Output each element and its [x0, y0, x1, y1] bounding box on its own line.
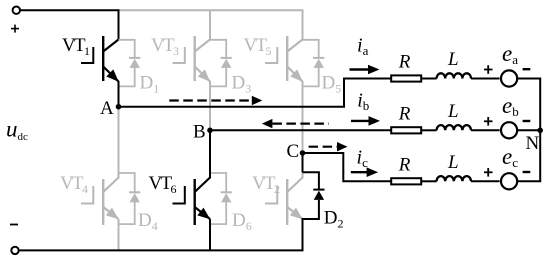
- svg-text:L: L: [447, 152, 459, 173]
- minus sign udc: [10, 224, 18, 226]
- diode D3: [210, 40, 232, 87]
- wire L to source phase b: [471, 129, 500, 131]
- transistor VT1: [81, 36, 119, 82]
- wire leg1 node A to VT4 collector: [118, 107, 120, 179]
- wire node B to VT6 collector: [209, 130, 211, 178]
- top rail wire: [20, 10, 119, 40]
- source e_c circle: [501, 173, 517, 189]
- wire node C down: [302, 153, 304, 172]
- svg-text:A: A: [100, 98, 114, 119]
- resistor R phase c: [391, 178, 421, 184]
- source e_a circle: [501, 70, 517, 86]
- wire L to source phase a: [471, 78, 500, 80]
- plus sign udc: [11, 25, 19, 33]
- transistor VT3: [173, 36, 211, 82]
- wire R to L phase a: [422, 78, 437, 80]
- wire leg3 top collector: [302, 10, 304, 40]
- wire source to bus phase c: [518, 180, 542, 182]
- wire source to bus phase b: [518, 129, 542, 131]
- diode D2: [303, 172, 325, 250]
- minus sign e_a: [523, 68, 531, 70]
- right bus wire: [539, 79, 541, 182]
- svg-text:C: C: [287, 141, 300, 162]
- wire R to L phase c: [422, 180, 437, 182]
- node C: [300, 150, 306, 156]
- plus sign e_b: [484, 117, 493, 126]
- inductor L phase b: [437, 125, 471, 130]
- svg-text:R: R: [398, 52, 411, 73]
- dashed current arrow phase c: [309, 146, 337, 148]
- wire phase c: [303, 153, 391, 181]
- source e_b circle: [501, 122, 517, 138]
- plus sign e_c: [484, 168, 493, 177]
- wire leg2 top collector: [209, 10, 211, 40]
- svg-text:N: N: [526, 133, 540, 154]
- resistor R phase b: [391, 127, 421, 133]
- wire leg1 emitter to bottom rail: [118, 219, 120, 250]
- bottom rail wire: [19, 249, 304, 251]
- wire leg2 emitter to node B: [209, 81, 211, 130]
- diode D1: [119, 40, 141, 87]
- inductor L phase a: [437, 73, 471, 78]
- node B: [207, 128, 213, 134]
- wire phase a: [119, 79, 391, 107]
- current arrow i_c: [351, 171, 368, 173]
- diode D5: [303, 40, 325, 87]
- node N: [537, 128, 543, 134]
- transistor VT5: [265, 36, 303, 82]
- svg-text:L: L: [447, 49, 459, 70]
- resistor R phase a: [391, 75, 421, 81]
- dashed current arrow phase b: [272, 122, 329, 124]
- wire phase b: [210, 129, 391, 131]
- plus sign e_a: [484, 65, 493, 74]
- svg-text:R: R: [398, 154, 411, 175]
- inductor L phase c: [437, 176, 471, 181]
- wire VT1 emitter to node A: [118, 81, 120, 107]
- wire leg3 C to VT2 collector: [302, 171, 304, 179]
- node A: [116, 104, 122, 110]
- wire R to L phase b: [422, 129, 437, 131]
- svg-text:L: L: [447, 101, 459, 122]
- diode D6: [210, 173, 232, 224]
- minus sign e_c: [523, 171, 531, 173]
- negative terminal: [11, 247, 18, 254]
- dashed arrow head phase c: [337, 142, 348, 151]
- svg-text:B: B: [193, 122, 206, 143]
- dashed arrow head phase b: [262, 119, 273, 128]
- wire leg3 emitter to node C: [302, 81, 304, 153]
- diode D4: [119, 173, 141, 224]
- svg-text:R: R: [398, 103, 411, 124]
- dashed current arrow phase a: [169, 99, 252, 101]
- wire L to source phase c: [471, 180, 500, 182]
- top rail gray segment: [119, 9, 304, 11]
- dashed arrow head phase a: [252, 96, 262, 105]
- current arrow i_b: [351, 120, 370, 122]
- current arrow i_a: [350, 68, 371, 70]
- wire source to bus phase a: [518, 78, 542, 80]
- positive terminal: [13, 7, 20, 14]
- transistor VT4: [81, 178, 119, 226]
- minus sign e_b: [523, 120, 531, 122]
- wire VT6 emitter to bottom rail: [209, 219, 211, 250]
- transistor VT6: [173, 178, 211, 226]
- transistor VT2: [265, 178, 303, 226]
